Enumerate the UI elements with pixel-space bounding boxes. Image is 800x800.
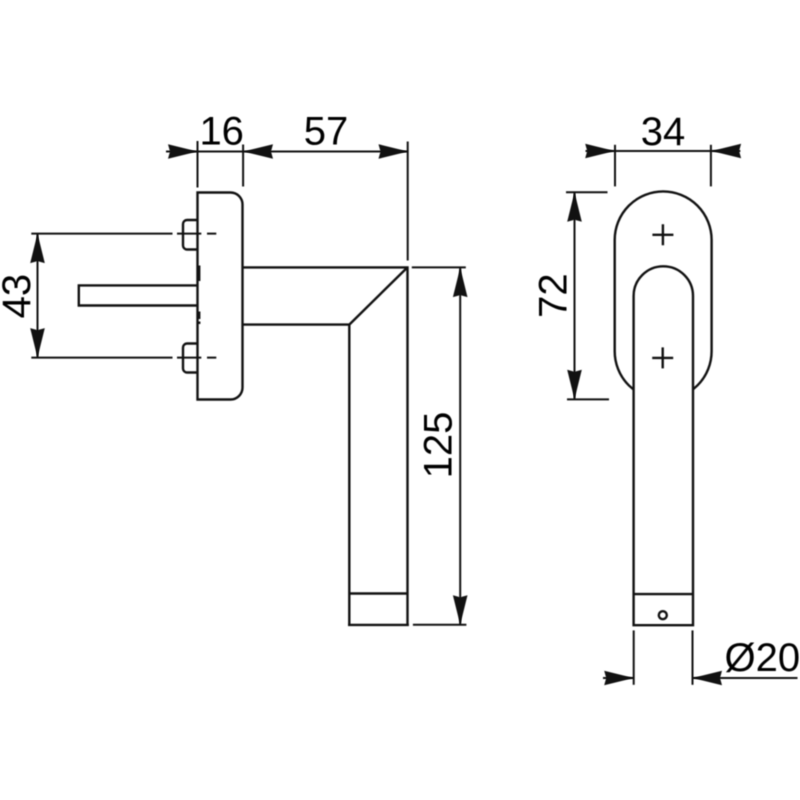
arrow 125 bottom (453, 595, 468, 625)
svg-text:34: 34 (641, 110, 686, 154)
ext dia20 right (692, 630, 694, 684)
arrow dia20 left (604, 671, 634, 686)
hidden edge dash lower (198, 312, 200, 325)
ext 34 right (710, 145, 712, 187)
hole circle (659, 611, 667, 619)
dim 34 line (586, 150, 741, 152)
svg-text:57: 57 (304, 109, 349, 153)
arrow 34 left (585, 144, 615, 159)
dim 72 line (574, 192, 576, 399)
screw lower (183, 344, 198, 373)
svg-text:125: 125 (417, 412, 461, 479)
ext 125 top (412, 266, 466, 268)
arrow 57 right (379, 144, 409, 159)
ext 125 bottom (413, 624, 467, 626)
svg-text:16: 16 (199, 109, 244, 153)
arrow 125 top (453, 268, 468, 298)
rosette front view (615, 191, 712, 399)
ext 72 bottom (567, 398, 609, 400)
arrow 72 bottom (567, 370, 582, 400)
ext 72 top (566, 191, 608, 193)
arrow 16 left (168, 144, 198, 159)
hidden edge dash upper (198, 266, 200, 282)
handle side view (243, 267, 409, 625)
rosette side view (198, 193, 243, 400)
svg-text:Ø20: Ø20 (725, 636, 800, 680)
arrow 43 top (30, 234, 45, 264)
screw upper (183, 220, 198, 250)
cross upper (652, 224, 673, 245)
ext 34 left (614, 145, 616, 187)
svg-text:72: 72 (532, 273, 576, 318)
arrow 43 bottom (30, 328, 45, 358)
center line screw lower (31, 357, 216, 359)
svg-text:43: 43 (0, 274, 39, 319)
ext line 16/57 mid (242, 145, 244, 187)
arrow 72 top (567, 192, 582, 222)
ext dia20 left (633, 630, 635, 684)
ext line 16 left (197, 141, 199, 188)
arrow 34 right (712, 144, 742, 159)
ext line 57 right (407, 142, 409, 261)
spindle (79, 285, 198, 305)
arrow 57 left (244, 144, 274, 159)
cross lower (652, 347, 673, 368)
handle front view (634, 266, 693, 625)
dim 16-57 line (166, 151, 408, 153)
dim 43 line (37, 234, 39, 358)
arrow dia20 right (693, 671, 723, 686)
center line screw upper (31, 233, 216, 235)
handle end cap line front (634, 593, 693, 595)
dim 125 line (459, 268, 461, 625)
dim dia20 line (603, 677, 798, 679)
